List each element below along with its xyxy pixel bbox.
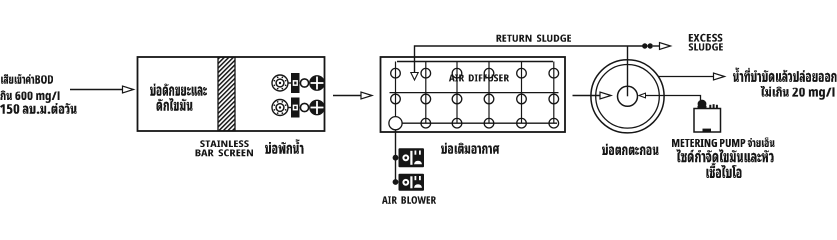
air blower B1 [399, 148, 425, 167]
label AIR DIFFUSER [449, 74, 509, 81]
clarifier T3 [591, 60, 664, 133]
label holding tank [265, 139, 303, 153]
label SLUDGE [689, 43, 723, 50]
diffuser lateral bottom [391, 122, 557, 124]
label STAINLESS [200, 140, 248, 147]
diffuser column x=457 [456, 62, 458, 124]
label AIR BLOWER [382, 196, 436, 204]
label RETURN SLUDGE [497, 35, 571, 42]
label aeration tank [441, 143, 499, 154]
diffuser column x=553.8 [553, 62, 555, 124]
junction node 1 [393, 155, 399, 161]
label influent line2 [0, 90, 59, 103]
clarifier vertical pipe [627, 46, 629, 96]
return sludge pipe [415, 46, 645, 73]
arrow T1 to aeration tank [333, 95, 361, 97]
label metering line3 [706, 163, 741, 178]
stainless bar screen [218, 57, 235, 130]
label clarifier [602, 144, 658, 155]
label effluent line2 [761, 86, 835, 100]
label BAR SCREEN [196, 149, 253, 156]
air pipe to blowers [395, 130, 397, 182]
junction node 2 [393, 179, 399, 185]
diffuser column x=521.5 [521, 62, 523, 124]
air header pipe [397, 61, 553, 63]
diffuser column x=489 [488, 62, 490, 124]
label tank1 line2 [157, 98, 193, 111]
excess sludge valve dots [642, 43, 647, 48]
metering feed line [646, 96, 701, 101]
label influent line1 [0, 72, 53, 84]
label tank1 line1 [150, 84, 207, 96]
pump P1 [272, 75, 288, 91]
pump P2 [272, 100, 288, 116]
clarifier center well [618, 86, 638, 106]
diffuser column x=425.8 [425, 62, 427, 124]
aeration tank T2 [381, 57, 566, 132]
effluent arrow [658, 76, 713, 78]
metering pump [694, 109, 721, 133]
label effluent line1 [733, 68, 837, 82]
arrow aeration to clarifier [573, 95, 601, 97]
label influent line3 [0, 103, 77, 114]
influent arrow [70, 89, 123, 91]
label METERING PUMP [672, 138, 774, 147]
excess sludge arrow [660, 43, 671, 50]
label metering line2 [676, 149, 773, 162]
diffuser column x=395.5 [395, 62, 397, 124]
label EXCESS [689, 34, 723, 42]
air blower B2 [399, 174, 425, 191]
diffuser lateral mid [390, 92, 559, 94]
tank T1 grease/garbage trap [138, 57, 325, 131]
